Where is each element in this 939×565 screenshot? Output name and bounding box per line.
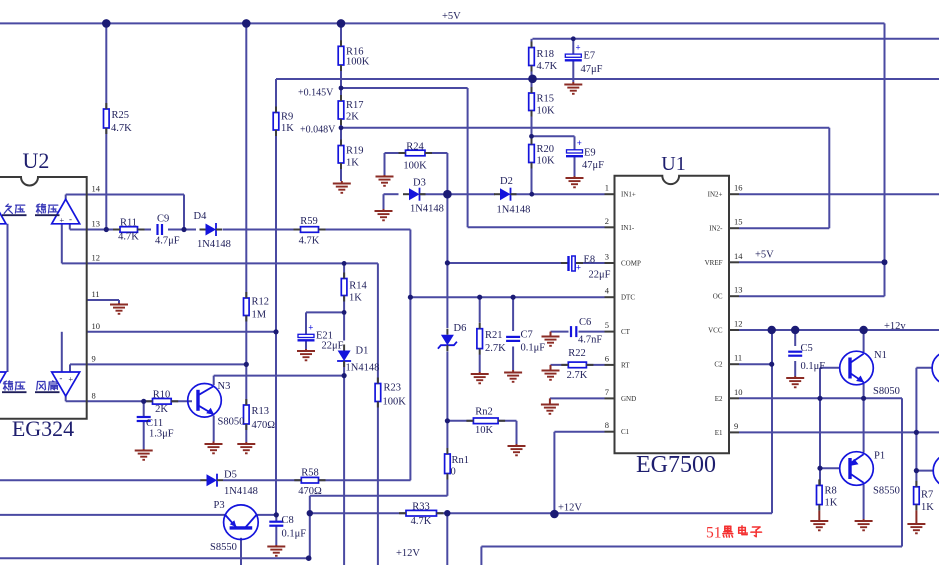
svg-text:8: 8	[605, 420, 609, 430]
svg-text:R23: R23	[384, 383, 402, 394]
svg-text:R17: R17	[346, 100, 364, 111]
svg-text:8: 8	[92, 390, 96, 400]
svg-text:1N4148: 1N4148	[224, 486, 258, 497]
svg-text:C11: C11	[146, 418, 163, 429]
svg-text:S8050: S8050	[873, 386, 900, 397]
svg-text:100K: 100K	[346, 57, 370, 68]
svg-text:-: -	[69, 214, 72, 224]
svg-text:0.1μF: 0.1μF	[521, 343, 546, 354]
svg-text:11: 11	[734, 353, 742, 363]
svg-text:DTC: DTC	[621, 294, 635, 302]
svg-text:7: 7	[605, 387, 609, 397]
svg-text:U1: U1	[661, 153, 685, 175]
svg-text:4.7K: 4.7K	[411, 516, 432, 527]
svg-text:4.7K: 4.7K	[299, 236, 320, 247]
svg-text:2.7K: 2.7K	[485, 343, 506, 354]
svg-text:R8: R8	[825, 486, 837, 497]
svg-text:C1: C1	[621, 428, 630, 436]
svg-text:IN2-: IN2-	[709, 225, 723, 233]
svg-text:15: 15	[734, 217, 743, 227]
svg-text:470Ω: 470Ω	[298, 486, 322, 497]
svg-text:100K: 100K	[403, 161, 427, 172]
svg-text:14: 14	[92, 184, 101, 194]
svg-text:+: +	[59, 215, 64, 225]
svg-text:D4: D4	[194, 211, 208, 222]
svg-text:R14: R14	[349, 281, 367, 292]
svg-text:Rn1: Rn1	[452, 455, 470, 466]
svg-text:P1: P1	[874, 451, 885, 462]
svg-text:0.1μF: 0.1μF	[801, 361, 826, 372]
svg-text:4.7nF: 4.7nF	[578, 335, 602, 346]
svg-text:4.7K: 4.7K	[537, 61, 558, 72]
svg-text:EG7500: EG7500	[636, 452, 716, 478]
svg-text:+12V: +12V	[558, 503, 582, 514]
svg-text:9: 9	[734, 421, 738, 431]
svg-text:R15: R15	[537, 94, 555, 105]
svg-text:S8550: S8550	[873, 486, 900, 497]
svg-text:0.1μF: 0.1μF	[282, 529, 307, 540]
svg-text:IN1-: IN1-	[621, 224, 635, 232]
svg-text:VCC: VCC	[708, 327, 723, 335]
svg-text:D3: D3	[413, 178, 426, 189]
svg-text:2: 2	[605, 216, 609, 226]
svg-text:R9: R9	[281, 112, 293, 123]
svg-text:C2: C2	[714, 361, 723, 369]
svg-text:+0.145V: +0.145V	[298, 88, 334, 99]
svg-text:100K: 100K	[383, 397, 407, 408]
svg-text:1K: 1K	[921, 502, 934, 513]
svg-text:+: +	[576, 263, 581, 273]
svg-text:2K: 2K	[346, 112, 359, 123]
svg-text:1.3μF: 1.3μF	[149, 429, 174, 440]
svg-text:+5V: +5V	[755, 250, 774, 261]
svg-text:22μF: 22μF	[589, 270, 611, 281]
svg-text:22μF: 22μF	[322, 341, 344, 352]
svg-text:E7: E7	[584, 51, 596, 62]
svg-text:+5V: +5V	[442, 11, 461, 22]
svg-text:OC: OC	[713, 293, 723, 301]
svg-text:51: 51	[706, 525, 722, 542]
svg-text:12: 12	[92, 252, 101, 262]
svg-text:R33: R33	[412, 502, 430, 513]
svg-text:+: +	[577, 138, 582, 148]
svg-text:D1: D1	[356, 346, 369, 357]
svg-text:EG324: EG324	[12, 416, 74, 441]
svg-text:12: 12	[734, 319, 743, 329]
svg-text:2K: 2K	[155, 404, 168, 415]
svg-text:R10: R10	[153, 390, 171, 401]
svg-text:N3: N3	[218, 381, 231, 392]
svg-text:R13: R13	[252, 406, 270, 417]
svg-text:3: 3	[605, 252, 609, 262]
svg-text:16: 16	[734, 183, 743, 193]
svg-text:E2: E2	[715, 395, 723, 403]
svg-text:C5: C5	[801, 343, 813, 354]
svg-text:4.7K: 4.7K	[118, 232, 139, 243]
svg-text:47μF: 47μF	[582, 160, 604, 171]
svg-text:+0.048V: +0.048V	[300, 125, 336, 136]
svg-text:4.7μF: 4.7μF	[155, 236, 180, 247]
svg-text:11: 11	[92, 289, 100, 299]
svg-text:6: 6	[605, 353, 609, 363]
svg-text:+12v: +12v	[884, 321, 906, 332]
svg-text:1N4148: 1N4148	[197, 239, 231, 250]
svg-text:D5: D5	[224, 470, 237, 481]
svg-text:+12V: +12V	[396, 548, 420, 559]
svg-text:U2: U2	[23, 148, 50, 173]
svg-text:10: 10	[92, 321, 101, 331]
svg-text:R7: R7	[921, 490, 933, 501]
svg-text:10K: 10K	[537, 106, 556, 117]
svg-text:RT: RT	[621, 361, 630, 369]
svg-text:1K: 1K	[825, 498, 838, 509]
svg-text:E9: E9	[584, 148, 596, 159]
svg-text:P3: P3	[214, 500, 225, 511]
svg-text:C6: C6	[579, 317, 591, 328]
svg-text:1: 1	[605, 183, 609, 193]
svg-text:+: +	[308, 323, 313, 333]
svg-text:N1: N1	[874, 350, 887, 361]
svg-text:S8550: S8550	[210, 542, 237, 553]
svg-text:47μF: 47μF	[581, 64, 603, 75]
svg-text:R24: R24	[406, 142, 424, 153]
svg-text:IN2+: IN2+	[708, 191, 723, 199]
svg-text:C7: C7	[521, 330, 533, 341]
svg-text:+: +	[576, 42, 581, 52]
svg-text:9: 9	[92, 353, 96, 363]
svg-text:R58: R58	[301, 468, 319, 479]
svg-text:0: 0	[451, 467, 456, 478]
svg-text:470Ω: 470Ω	[252, 420, 276, 431]
svg-text:10: 10	[734, 387, 743, 397]
svg-text:D2: D2	[500, 176, 513, 187]
svg-text:C9: C9	[157, 214, 169, 225]
svg-text:13: 13	[734, 285, 743, 295]
svg-text:-: -	[59, 373, 62, 383]
svg-text:1K: 1K	[349, 293, 362, 304]
svg-text:R12: R12	[252, 297, 270, 308]
svg-text:1N4148: 1N4148	[410, 204, 444, 215]
svg-text:10K: 10K	[475, 425, 494, 436]
svg-text:VREF: VREF	[705, 259, 723, 267]
svg-text:1M: 1M	[252, 310, 267, 321]
svg-text:R25: R25	[112, 110, 130, 121]
svg-text:E1: E1	[715, 429, 723, 437]
svg-text:R22: R22	[568, 348, 586, 359]
svg-text:1N4148: 1N4148	[346, 363, 380, 374]
svg-text:14: 14	[734, 251, 743, 261]
svg-text:R20: R20	[537, 144, 555, 155]
svg-text:S8050: S8050	[218, 417, 245, 428]
svg-text:R21: R21	[485, 330, 503, 341]
svg-text:5: 5	[605, 320, 609, 330]
svg-text:1N4148: 1N4148	[497, 205, 531, 216]
svg-text:D6: D6	[454, 323, 467, 334]
svg-text:E8: E8	[584, 255, 596, 266]
svg-text:10K: 10K	[537, 156, 556, 167]
svg-text:R59: R59	[300, 216, 318, 227]
svg-text:C8: C8	[282, 515, 294, 526]
svg-text:1K: 1K	[346, 158, 359, 169]
svg-text:R18: R18	[537, 49, 555, 60]
svg-text:COMP: COMP	[621, 260, 641, 268]
svg-text:CT: CT	[621, 328, 631, 336]
svg-text:IN1+: IN1+	[621, 191, 636, 199]
svg-text:R11: R11	[120, 218, 137, 229]
svg-text:13: 13	[92, 219, 101, 229]
svg-text:2.7K: 2.7K	[567, 370, 588, 381]
svg-text:+: +	[68, 374, 73, 384]
svg-text:1K: 1K	[281, 123, 294, 134]
svg-text:R19: R19	[346, 146, 364, 157]
svg-text:Rn2: Rn2	[475, 407, 493, 418]
svg-text:4.7K: 4.7K	[111, 123, 132, 134]
svg-text:GND: GND	[621, 395, 636, 403]
